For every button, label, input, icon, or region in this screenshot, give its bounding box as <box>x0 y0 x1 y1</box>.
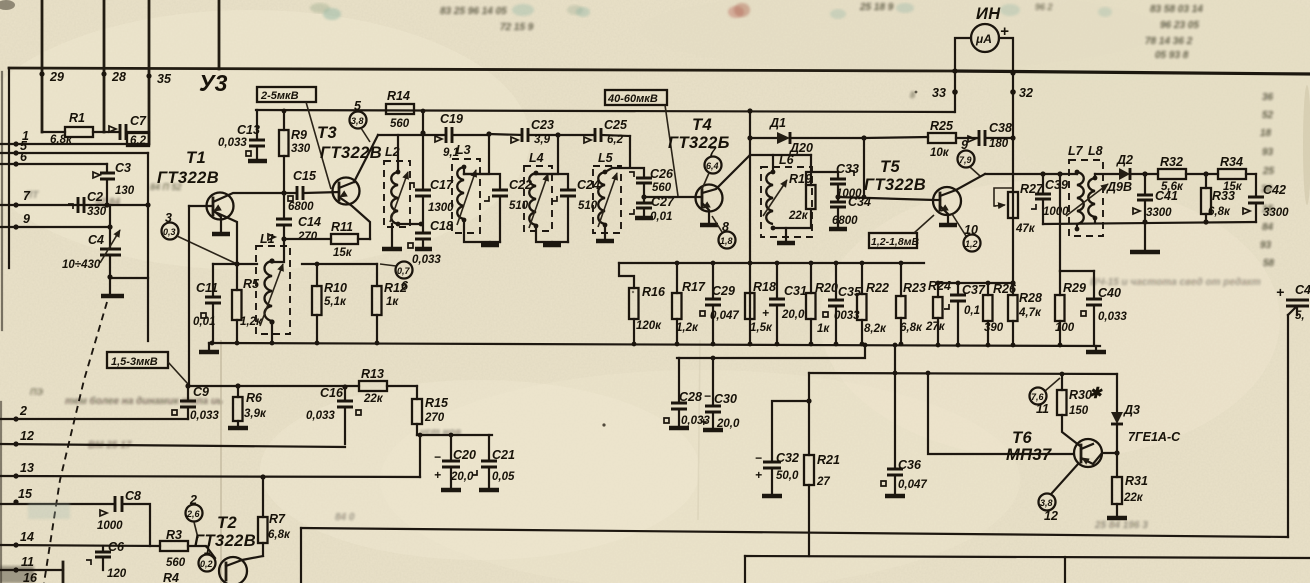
capacitor C9 <box>187 386 189 419</box>
capacitor C14 <box>273 193 284 262</box>
bias rail T1/T3 <box>302 263 377 265</box>
svg-text:Д9В: Д9В <box>1106 180 1132 194</box>
resistor R6 <box>237 386 239 427</box>
transistor T4 <box>696 185 723 212</box>
left border vertical <box>8 68 10 268</box>
capacitor C18 <box>415 233 431 239</box>
capacitor C19 <box>446 127 452 143</box>
wire L5 top tap <box>612 136 644 178</box>
resistor R27 <box>1008 192 1018 218</box>
svg-text:L6: L6 <box>779 153 795 167</box>
resistor R19 <box>806 185 816 209</box>
svg-text:15к: 15к <box>333 247 353 259</box>
emitter return rail <box>209 343 1100 346</box>
inductor L7 L8 <box>1066 144 1108 236</box>
pin 9 <box>13 224 18 229</box>
svg-text:0,3: 0,3 <box>163 227 176 237</box>
svg-text:05 93 8: 05 93 8 <box>1155 50 1189 61</box>
top feed vertical 28 <box>103 0 106 132</box>
node R33 <box>1203 171 1208 176</box>
svg-text:C21: C21 <box>492 448 515 462</box>
svg-text:120к: 120к <box>636 320 662 332</box>
svg-text:10к: 10к <box>930 147 950 159</box>
output box A <box>301 528 1288 537</box>
svg-text:R7: R7 <box>269 512 286 526</box>
ground rail right end <box>1095 346 1097 351</box>
svg-text:C11: C11 <box>196 281 218 295</box>
svg-text:C13: C13 <box>237 123 260 137</box>
svg-text:C42: C42 <box>1263 183 1286 197</box>
ground T5 emitter <box>939 223 957 228</box>
sens box 1,2-1,8mV <box>869 233 917 248</box>
svg-text:50,0: 50,0 <box>776 470 799 482</box>
capacitor C39 <box>1042 174 1044 224</box>
test point 5 <box>350 112 367 129</box>
svg-text:R6: R6 <box>246 391 263 405</box>
svg-text:C6: C6 <box>108 540 125 554</box>
svg-text:R5: R5 <box>243 277 260 291</box>
pin 15 <box>13 499 18 504</box>
svg-text:29: 29 <box>49 70 64 84</box>
svg-text:96 23 05: 96 23 05 <box>1160 20 1199 31</box>
svg-text:560: 560 <box>166 557 186 569</box>
electrolytic C30 <box>712 358 714 429</box>
inductor L6 <box>761 153 812 237</box>
svg-text:93: 93 <box>1262 147 1274 158</box>
svg-text:3,8: 3,8 <box>351 116 364 126</box>
capacitor C38 <box>979 130 985 146</box>
svg-text:0,01: 0,01 <box>650 211 672 223</box>
resistor R17 <box>675 261 680 266</box>
svg-text:3,8: 3,8 <box>1040 498 1053 508</box>
svg-text:0,033: 0,033 <box>218 137 247 149</box>
svg-text:6,8к: 6,8к <box>900 322 923 334</box>
svg-text:R13: R13 <box>361 367 384 381</box>
trimmer capacitor C4 <box>100 249 121 255</box>
svg-text:130: 130 <box>115 185 135 197</box>
svg-text:330: 330 <box>291 143 311 155</box>
svg-text:2: 2 <box>19 404 27 418</box>
svg-text:22к: 22к <box>1123 492 1144 504</box>
svg-text:8: 8 <box>722 220 729 234</box>
capacitor C24 <box>534 174 568 242</box>
svg-text:510: 510 <box>509 200 529 212</box>
svg-text:+: + <box>434 468 441 482</box>
node 29 <box>39 71 44 76</box>
svg-text:40-60мкВ: 40-60мкВ <box>607 93 658 105</box>
svg-text:0,7: 0,7 <box>397 266 411 276</box>
svg-text:96 2: 96 2 <box>1035 2 1053 12</box>
wire T1 base bias <box>188 206 190 386</box>
node L1 rail <box>270 341 275 346</box>
svg-text:+: + <box>762 306 769 320</box>
svg-text:ГТ322Б: ГТ322Б <box>668 134 730 152</box>
svg-text:R33: R33 <box>1212 189 1235 203</box>
node C3/pin7 <box>104 202 109 207</box>
T5 collector wire <box>985 173 1077 175</box>
test point 2 <box>186 505 203 522</box>
svg-text:R23: R23 <box>903 281 926 295</box>
top supply bus <box>9 68 954 71</box>
svg-text:12: 12 <box>1044 509 1058 523</box>
svg-text:16: 16 <box>23 571 38 583</box>
svg-text:32: 32 <box>1019 86 1033 100</box>
resistor R21 <box>804 455 814 485</box>
svg-text:47к: 47к <box>1015 223 1036 235</box>
top feed vertical 29 <box>41 0 44 132</box>
svg-text:35: 35 <box>157 72 172 86</box>
svg-text:1300: 1300 <box>428 202 454 214</box>
svg-text:МП37: МП37 <box>1006 446 1052 464</box>
svg-text:L5: L5 <box>598 151 614 165</box>
svg-text:390: 390 <box>984 322 1004 334</box>
resistor R16 <box>629 288 639 319</box>
resistor R23 <box>899 261 904 266</box>
svg-text:3,9: 3,9 <box>534 134 551 146</box>
T6 emitter wire <box>1052 464 1078 493</box>
svg-text:9: 9 <box>961 138 968 152</box>
top feed vertical 35 <box>148 0 151 144</box>
ground rail left end <box>208 343 210 351</box>
ground L6 <box>785 228 787 242</box>
svg-text:330: 330 <box>87 206 107 218</box>
svg-text:36: 36 <box>1262 92 1274 103</box>
ground C41 <box>1144 222 1146 251</box>
wire pin5 branch <box>147 153 149 341</box>
svg-text:уст нов: уст нов <box>419 427 461 438</box>
pin 5 <box>13 150 18 155</box>
svg-text:1,2к: 1,2к <box>676 322 699 334</box>
resistor R28 <box>1012 283 1014 345</box>
capacitor C7 <box>120 124 126 140</box>
resistor R3 <box>160 541 188 551</box>
svg-text:Д2: Д2 <box>1116 153 1133 167</box>
paper crease line <box>220 340 222 583</box>
svg-text:L4: L4 <box>529 151 544 165</box>
wire R1 row <box>42 131 149 133</box>
svg-text:20,0: 20,0 <box>781 309 805 321</box>
capacitor C21 <box>488 435 490 489</box>
svg-text:6,4: 6,4 <box>706 161 719 171</box>
svg-text:6800: 6800 <box>832 215 858 227</box>
svg-text:0,033: 0,033 <box>306 410 335 422</box>
svg-text:100: 100 <box>1055 322 1075 334</box>
svg-text:3300: 3300 <box>1263 207 1289 219</box>
electrolytic C32 <box>772 401 809 495</box>
svg-text:R28: R28 <box>1019 291 1042 305</box>
svg-text:15: 15 <box>18 487 33 501</box>
inductor L5 <box>593 151 621 241</box>
svg-text:58: 58 <box>1263 258 1275 269</box>
svg-text:C38: C38 <box>989 121 1012 135</box>
svg-text:C20: C20 <box>453 448 476 462</box>
svg-text:C39: C39 <box>1045 178 1068 192</box>
capacitor C29 <box>711 261 716 266</box>
svg-text:93: 93 <box>1260 240 1272 251</box>
wire C4 column <box>109 205 111 294</box>
diode D3 <box>1116 374 1118 453</box>
wire L3 top tap <box>464 134 489 174</box>
svg-text:R4: R4 <box>163 571 179 583</box>
svg-text:−: − <box>704 389 711 403</box>
svg-text:R1: R1 <box>69 111 85 125</box>
svg-text:6800: 6800 <box>288 201 314 213</box>
svg-text:R31: R31 <box>1125 474 1148 488</box>
pin 7 <box>13 202 18 207</box>
svg-text:1,8: 1,8 <box>720 236 733 246</box>
svg-text:R25: R25 <box>930 119 954 133</box>
svg-text:R22: R22 <box>866 281 889 295</box>
resistor R31 <box>1116 453 1118 517</box>
svg-text:1000: 1000 <box>1043 206 1069 218</box>
capacitor C35 <box>834 261 839 266</box>
svg-text:0,033: 0,033 <box>190 410 219 422</box>
svg-text:1000: 1000 <box>97 520 123 532</box>
svg-text:Т6: Т6 <box>1012 429 1032 447</box>
svg-text:+: + <box>1276 284 1284 300</box>
svg-text:25 18 9: 25 18 9 <box>859 2 894 13</box>
svg-text:C31: C31 <box>784 284 807 298</box>
svg-text:11: 11 <box>21 555 34 569</box>
AVC rail <box>809 373 1117 374</box>
svg-text:R32: R32 <box>1160 155 1183 169</box>
svg-text:13: 13 <box>20 461 34 475</box>
capacitor C3 <box>106 164 108 205</box>
svg-text:C16: C16 <box>320 386 344 400</box>
svg-text:R34: R34 <box>1220 155 1243 169</box>
node T4 base <box>641 194 646 199</box>
svg-text:C34: C34 <box>848 195 871 209</box>
svg-text:μА: μА <box>975 32 992 46</box>
node vert to R29 row <box>1057 171 1062 176</box>
pin 1 <box>13 141 18 146</box>
svg-text:270: 270 <box>297 231 318 243</box>
svg-text:8,2к: 8,2к <box>864 323 887 335</box>
pin 13 rail <box>13 473 18 478</box>
node T3 base column <box>281 190 286 195</box>
svg-text:27: 27 <box>816 476 830 488</box>
svg-text:C24: C24 <box>577 178 600 192</box>
resistor R26 <box>986 281 991 286</box>
node pin7/branch <box>145 202 150 207</box>
capacitor C41 <box>1144 174 1146 222</box>
svg-text:1,2к: 1,2к <box>240 316 263 328</box>
capacitor C37 <box>957 283 959 345</box>
resistor R30 <box>1062 374 1080 446</box>
svg-text:C36: C36 <box>898 458 922 472</box>
svg-text:C29: C29 <box>712 284 735 298</box>
svg-text:0,2: 0,2 <box>200 559 213 569</box>
resistor R32 <box>1158 169 1186 179</box>
svg-text:R24: R24 <box>928 279 951 293</box>
svg-text:R20: R20 <box>815 281 838 295</box>
svg-text:22к: 22к <box>363 393 384 405</box>
svg-text:7: 7 <box>709 145 717 159</box>
svg-text:3,9к: 3,9к <box>244 408 267 420</box>
pin 14 <box>13 542 18 547</box>
ground C13 <box>248 159 267 164</box>
pin 2 <box>13 416 18 421</box>
svg-text:12: 12 <box>20 429 34 443</box>
svg-text:7,6: 7,6 <box>1031 392 1045 402</box>
electrolytic C31 <box>775 261 780 266</box>
svg-text:0,05: 0,05 <box>492 471 515 483</box>
node rail link <box>421 109 426 114</box>
svg-text:C41: C41 <box>1155 189 1178 203</box>
svg-text:25 84 196 3: 25 84 196 3 <box>1094 520 1148 531</box>
svg-text:6,8к: 6,8к <box>268 529 291 541</box>
svg-text:L8: L8 <box>1088 144 1103 158</box>
svg-text:C4: C4 <box>88 233 104 247</box>
svg-text:L3: L3 <box>456 143 471 157</box>
svg-text:С4: С4 <box>1295 283 1310 297</box>
node C41 <box>1142 171 1147 176</box>
node C19/L3 <box>486 131 491 136</box>
svg-text:Т5: Т5 <box>880 158 900 176</box>
sens box 40-60mkV <box>605 90 667 105</box>
svg-text:27к: 27к <box>925 321 946 333</box>
node 33 <box>952 68 957 73</box>
svg-text:10÷430: 10÷430 <box>62 259 101 271</box>
capacitor C6 <box>102 546 104 570</box>
test point 7 <box>705 157 722 174</box>
svg-text:84: 84 <box>1262 222 1274 233</box>
dashed section divider <box>44 302 107 583</box>
pin 6 <box>13 161 18 166</box>
resistor R25 <box>928 133 956 143</box>
svg-text:1: 1 <box>204 543 211 557</box>
test point 1 <box>199 555 216 572</box>
svg-text:52: 52 <box>1262 110 1274 121</box>
svg-text:7: 7 <box>23 189 31 203</box>
resistor R1 <box>65 127 93 137</box>
transistor T5 <box>933 187 961 215</box>
resistor R9 <box>279 130 289 156</box>
svg-text:C19: C19 <box>440 112 463 126</box>
capacitor C23 <box>489 134 522 135</box>
pin 12 <box>13 441 18 446</box>
ground L3/C22 <box>489 242 491 244</box>
svg-text:Т1: Т1 <box>186 149 206 167</box>
test point 0,7 <box>396 262 413 279</box>
node R12 rail <box>375 341 380 346</box>
svg-text:3: 3 <box>165 211 172 225</box>
svg-text:Д3: Д3 <box>1123 403 1140 417</box>
svg-text:✱: ✱ <box>1089 385 1103 402</box>
svg-text:78 14 36 2: 78 14 36 2 <box>1145 36 1193 47</box>
ground T1 emitter <box>212 232 230 237</box>
pin 11 <box>13 567 18 572</box>
svg-text:L7: L7 <box>1068 144 1084 158</box>
transistor T1 <box>207 193 234 220</box>
sens box 1,5-3mkV <box>107 352 168 368</box>
svg-text:0,047: 0,047 <box>898 479 927 491</box>
resistor R18 <box>748 261 753 266</box>
transistor T6 <box>1074 439 1102 467</box>
svg-text:C3: C3 <box>115 161 131 175</box>
output box B <box>745 556 1310 558</box>
svg-text:560: 560 <box>390 118 410 130</box>
svg-text:20,0: 20,0 <box>716 418 740 430</box>
svg-text:C28: C28 <box>679 390 702 404</box>
svg-text:Т3: Т3 <box>317 124 337 142</box>
capacitor C28 <box>678 358 680 427</box>
resistor R10 <box>316 264 318 343</box>
resistor R11 <box>284 238 370 240</box>
svg-text:0,01: 0,01 <box>193 316 215 328</box>
inductor L4 <box>524 151 568 242</box>
svg-text:R15: R15 <box>425 396 449 410</box>
svg-text:84 0: 84 0 <box>335 512 355 523</box>
resistor R7 <box>262 477 264 556</box>
inductor L2 <box>382 135 423 249</box>
wire L6 top <box>750 154 811 156</box>
capacitor C25 <box>558 134 595 136</box>
diode D1 <box>750 137 864 139</box>
svg-text:83 25 96 14 05: 83 25 96 14 05 <box>440 6 507 17</box>
dark corner smudges <box>0 566 34 583</box>
svg-text:C26: C26 <box>650 167 674 181</box>
sens box 2-5mkV <box>257 87 316 102</box>
svg-text:5,1к: 5,1к <box>324 296 347 308</box>
rail junction dots <box>210 341 215 346</box>
ground T4 emitter <box>700 223 718 228</box>
svg-text:ИН: ИН <box>976 5 1001 23</box>
svg-text:1,5к: 1,5к <box>750 322 773 334</box>
svg-text:R10: R10 <box>324 281 347 295</box>
node pin9 <box>107 224 112 229</box>
svg-text:120: 120 <box>107 568 127 580</box>
svg-text:R29: R29 <box>1063 281 1086 295</box>
test point 9 <box>958 151 975 168</box>
svg-text:270: 270 <box>424 412 445 424</box>
diode D2 <box>1095 173 1158 175</box>
svg-text:C25: C25 <box>604 118 628 132</box>
resistor R33 <box>1201 188 1211 214</box>
svg-text:6,8к: 6,8к <box>50 134 73 146</box>
svg-text:+: + <box>700 415 707 429</box>
inductor L1 <box>256 232 290 343</box>
svg-text:C33: C33 <box>836 162 859 176</box>
svg-text:ГТ322В: ГТ322В <box>864 176 926 194</box>
svg-text:R16: R16 <box>642 285 666 299</box>
svg-text:C35: C35 <box>838 285 862 299</box>
svg-text:C2: C2 <box>87 190 103 204</box>
svg-text:C30: C30 <box>714 392 737 406</box>
resistor R12 <box>376 264 378 343</box>
svg-text:7ГЕ1А-С: 7ГЕ1А-С <box>1128 430 1181 444</box>
svg-text:C14: C14 <box>298 215 321 229</box>
R21 feed column <box>808 373 810 556</box>
svg-text:6: 6 <box>20 150 28 164</box>
scan left edge line <box>1 72 3 330</box>
svg-text:Д1: Д1 <box>769 116 786 130</box>
svg-text:20,0: 20,0 <box>450 471 474 483</box>
svg-text:−: − <box>434 450 441 464</box>
svg-text:C9: C9 <box>193 385 209 399</box>
svg-text:2: 2 <box>189 493 197 507</box>
test point 7,6 <box>1030 388 1047 405</box>
svg-text:180: 180 <box>989 138 1009 150</box>
resistor R13 <box>359 381 387 391</box>
IF coupling row <box>378 135 630 136</box>
supply rail upper <box>256 110 954 112</box>
svg-text:0,033: 0,033 <box>1098 311 1127 323</box>
svg-text:560: 560 <box>652 182 672 194</box>
svg-text:ГТ322В: ГТ322В <box>157 169 219 187</box>
node 35 <box>146 73 151 78</box>
svg-text:2,6: 2,6 <box>186 509 201 519</box>
